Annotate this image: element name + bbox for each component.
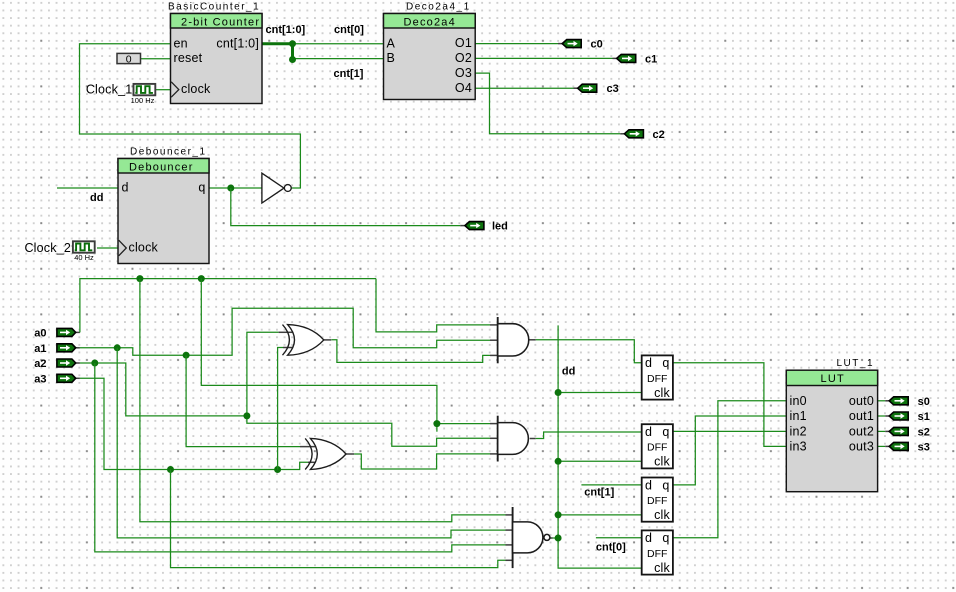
- wire cnt[1] stub to DFF3 d: [581, 484, 641, 486]
- output port s0: [889, 396, 930, 408]
- wire LUT out1 to s1: [878, 415, 886, 417]
- DFF4: [642, 530, 673, 574]
- wire a2 step to AND2 middle input: [247, 416, 490, 446]
- svg-text:a1: a1: [34, 343, 46, 355]
- DFF3: [642, 478, 673, 522]
- wire DFF4 q to LUT in0: [673, 401, 786, 538]
- wire a0 riser and top rail: [76, 331, 80, 333]
- wire a3 branch to XOR1 bottom input: [278, 348, 283, 470]
- svg-text:c2: c2: [653, 129, 665, 141]
- output port s2: [889, 426, 930, 438]
- junction a1 dot1: [114, 344, 121, 351]
- svg-text:d: d: [645, 425, 652, 439]
- svg-text:LUT: LUT: [821, 373, 845, 385]
- clock source Clock_2: [24, 241, 94, 262]
- svg-text:O1: O1: [455, 36, 472, 50]
- wire rail to DFF1 clk: [558, 392, 642, 394]
- input port a0: [34, 327, 75, 339]
- svg-text:clk: clk: [654, 455, 670, 469]
- svg-text:d: d: [645, 531, 652, 545]
- bus cnt[1:0]: [262, 42, 293, 45]
- wire DFF3 q to LUT in1: [673, 416, 786, 485]
- svg-text:in2: in2: [790, 425, 807, 439]
- 2-bit counter U1 BasicCounter_1: [168, 2, 262, 104]
- svg-text:BasicCounter_1: BasicCounter_1: [168, 2, 260, 13]
- svg-text:DFF: DFF: [647, 495, 667, 507]
- wire O4 to c3: [475, 87, 573, 89]
- debouncer U3 Debouncer_1: [118, 147, 209, 264]
- output port c3: [578, 83, 619, 95]
- svg-text:100 Hz: 100 Hz: [131, 96, 155, 105]
- svg-text:cnt[1]: cnt[1]: [584, 487, 614, 499]
- svg-text:0: 0: [126, 53, 132, 65]
- svg-text:s2: s2: [918, 426, 930, 438]
- wire LUT out0 to s0: [878, 400, 886, 402]
- NOT gate inverter: [262, 173, 291, 203]
- wire DFF1 q to LUT in3: [673, 363, 786, 447]
- wire rail to DFF3 clk: [558, 514, 642, 516]
- svg-text:clk: clk: [654, 386, 670, 400]
- wire a2 to XOR1 top input: [247, 332, 279, 416]
- svg-text:Clock_2: Clock_2: [24, 241, 71, 255]
- wire AND2 output to DFF2 d: [530, 438, 536, 440]
- XOR gate X2: [305, 438, 346, 469]
- svg-text:a0: a0: [34, 327, 46, 339]
- wire a3 branch to NAND input4: [171, 470, 506, 568]
- DFF1: [642, 355, 673, 399]
- wire a3 rail: [76, 377, 80, 379]
- svg-text:B: B: [387, 51, 396, 65]
- svg-text:Deco2a4_1: Deco2a4_1: [406, 2, 471, 13]
- svg-text:Debouncer: Debouncer: [129, 162, 194, 174]
- svg-text:d: d: [122, 181, 129, 195]
- wire O3 to c2: [475, 73, 620, 134]
- svg-text:in0: in0: [790, 394, 807, 408]
- wire clock2 to debouncer clock: [97, 247, 118, 249]
- wire clock1 to counter clock: [155, 89, 171, 91]
- svg-text:O3: O3: [455, 66, 472, 80]
- svg-text:c3: c3: [607, 83, 619, 95]
- clock source Clock_1: [86, 83, 155, 105]
- wire DFF2 q to LUT in2: [673, 430, 786, 432]
- svg-text:dd: dd: [562, 366, 575, 378]
- junction q dot: [227, 185, 234, 192]
- wire O2 to c1: [475, 57, 612, 59]
- svg-text:in3: in3: [790, 440, 807, 454]
- wire stub below AND2-top junction: [436, 424, 438, 432]
- output port s1: [889, 411, 930, 423]
- AND gate A1: [498, 317, 529, 363]
- wire a1 branch to NAND input2: [117, 348, 505, 538]
- wire XOR1 output to AND1 bottom input: [324, 339, 332, 341]
- output port c1: [617, 53, 658, 65]
- junction a3 dot2: [274, 466, 281, 473]
- svg-text:a2: a2: [34, 358, 46, 370]
- NAND gate N1: [513, 507, 550, 568]
- decoder U2 Deco2a4_1: [384, 2, 476, 100]
- svg-text:cnt[0]: cnt[0]: [596, 542, 626, 554]
- svg-text:DFF: DFF: [647, 548, 667, 560]
- svg-text:q: q: [662, 478, 669, 492]
- svg-text:en: en: [174, 36, 188, 50]
- svg-text:cnt[1:0]: cnt[1:0]: [216, 36, 259, 50]
- svg-text:reset: reset: [174, 51, 203, 65]
- input port a3: [34, 373, 75, 385]
- svg-text:clock: clock: [129, 241, 159, 255]
- wire LUT out3 to s3: [878, 445, 886, 447]
- svg-text:q: q: [198, 181, 205, 195]
- svg-text:2-bit Counter: 2-bit Counter: [181, 17, 260, 29]
- wire cnt[0] stub to DFF4 d: [596, 537, 642, 539]
- svg-text:s3: s3: [918, 441, 930, 453]
- svg-text:d: d: [645, 478, 652, 492]
- svg-text:out0: out0: [849, 394, 874, 408]
- wire a0 branch to AND2 top input: [201, 279, 437, 424]
- output port led: [465, 221, 508, 233]
- svg-text:led: led: [492, 221, 508, 233]
- wire a0 to AND1 top input: [376, 279, 490, 332]
- junction clk rail dot2: [555, 458, 562, 465]
- XOR gate X1: [283, 325, 324, 356]
- constant 0 box: [117, 53, 141, 65]
- svg-text:LUT_1: LUT_1: [837, 358, 875, 369]
- svg-text:40 Hz: 40 Hz: [74, 253, 94, 262]
- output port s3: [889, 441, 930, 453]
- wire a2: [76, 362, 80, 364]
- svg-text:O4: O4: [455, 81, 472, 95]
- wire cnt0 to Deco A: [293, 43, 384, 45]
- svg-text:in1: in1: [790, 409, 807, 423]
- svg-text:s0: s0: [918, 396, 930, 408]
- svg-text:Clock_1: Clock_1: [86, 83, 133, 97]
- svg-text:clock: clock: [181, 82, 211, 96]
- output port c2: [624, 129, 664, 141]
- svg-text:A: A: [387, 36, 396, 50]
- wire debouncer q to NOT input: [209, 187, 262, 189]
- svg-text:q: q: [662, 425, 669, 439]
- wire rail to DFF2 clk: [558, 460, 642, 462]
- junction clk rail dot4: [555, 535, 562, 542]
- svg-text:cnt[1:0]: cnt[1:0]: [266, 24, 306, 36]
- wire NAND output to clk rail: [550, 537, 553, 539]
- svg-text:out3: out3: [849, 440, 874, 454]
- svg-text:d: d: [645, 356, 652, 370]
- svg-text:cnt[0]: cnt[0]: [334, 24, 364, 36]
- wire dd input to debouncer d: [57, 187, 118, 189]
- svg-text:c0: c0: [591, 39, 603, 51]
- AND gate A2: [498, 416, 529, 462]
- wire a1 to AND1 middle input: [76, 347, 80, 349]
- wire q branch to led: [231, 188, 460, 226]
- svg-text:dd: dd: [90, 192, 103, 204]
- output port c0: [562, 39, 603, 51]
- junction bus dot1: [289, 40, 296, 47]
- junction a2 dot1: [91, 360, 98, 367]
- wire reset const to counter: [141, 58, 171, 60]
- DFF2: [642, 424, 673, 468]
- svg-text:q: q: [662, 531, 669, 545]
- wire a0 branch to NAND input1: [140, 279, 506, 522]
- junction a0 rail dot1: [136, 275, 143, 282]
- wire O1 to c0: [475, 43, 558, 45]
- svg-text:DFF: DFF: [647, 442, 667, 454]
- svg-text:out2: out2: [849, 425, 874, 439]
- LUT U4 LUT_1: [786, 358, 877, 492]
- svg-text:c1: c1: [645, 53, 657, 65]
- junction AND2-top dot: [433, 420, 440, 427]
- svg-text:clk: clk: [654, 561, 670, 575]
- svg-text:a3: a3: [34, 373, 46, 385]
- wire LUT out2 to s2: [878, 430, 886, 432]
- wire dd clk rail: [558, 325, 642, 568]
- junction a1 dot2: [183, 352, 190, 359]
- junction bus dot2: [289, 56, 296, 63]
- input port a2: [34, 358, 75, 370]
- junction clk rail dot3: [555, 511, 562, 518]
- svg-text:O2: O2: [455, 51, 472, 65]
- wire a1 branch to XOR2 top input: [186, 355, 300, 446]
- svg-text:clk: clk: [654, 508, 670, 522]
- junction a2 step dot: [243, 412, 250, 419]
- wire en feedback from NOT output to counter en: [80, 44, 301, 188]
- svg-text:DFF: DFF: [647, 373, 667, 385]
- wire AND1 output to DFF1 d: [529, 339, 536, 341]
- svg-text:s1: s1: [918, 411, 930, 423]
- svg-text:out1: out1: [849, 409, 874, 423]
- svg-text:cnt[1]: cnt[1]: [334, 68, 364, 80]
- wire XOR2 output to AND2 bottom input: [346, 453, 354, 455]
- junction a0 rail dot2: [198, 275, 205, 282]
- svg-text:q: q: [662, 356, 669, 370]
- svg-text:Deco2a4: Deco2a4: [404, 17, 456, 29]
- input port a1: [34, 343, 75, 355]
- junction a3 dot1: [167, 466, 174, 473]
- junction clk rail dot1: [555, 389, 562, 396]
- wire a2 branch to NAND input3: [95, 363, 506, 552]
- wire cnt1 to Deco B: [293, 58, 384, 60]
- svg-text:Debouncer_1: Debouncer_1: [130, 147, 207, 158]
